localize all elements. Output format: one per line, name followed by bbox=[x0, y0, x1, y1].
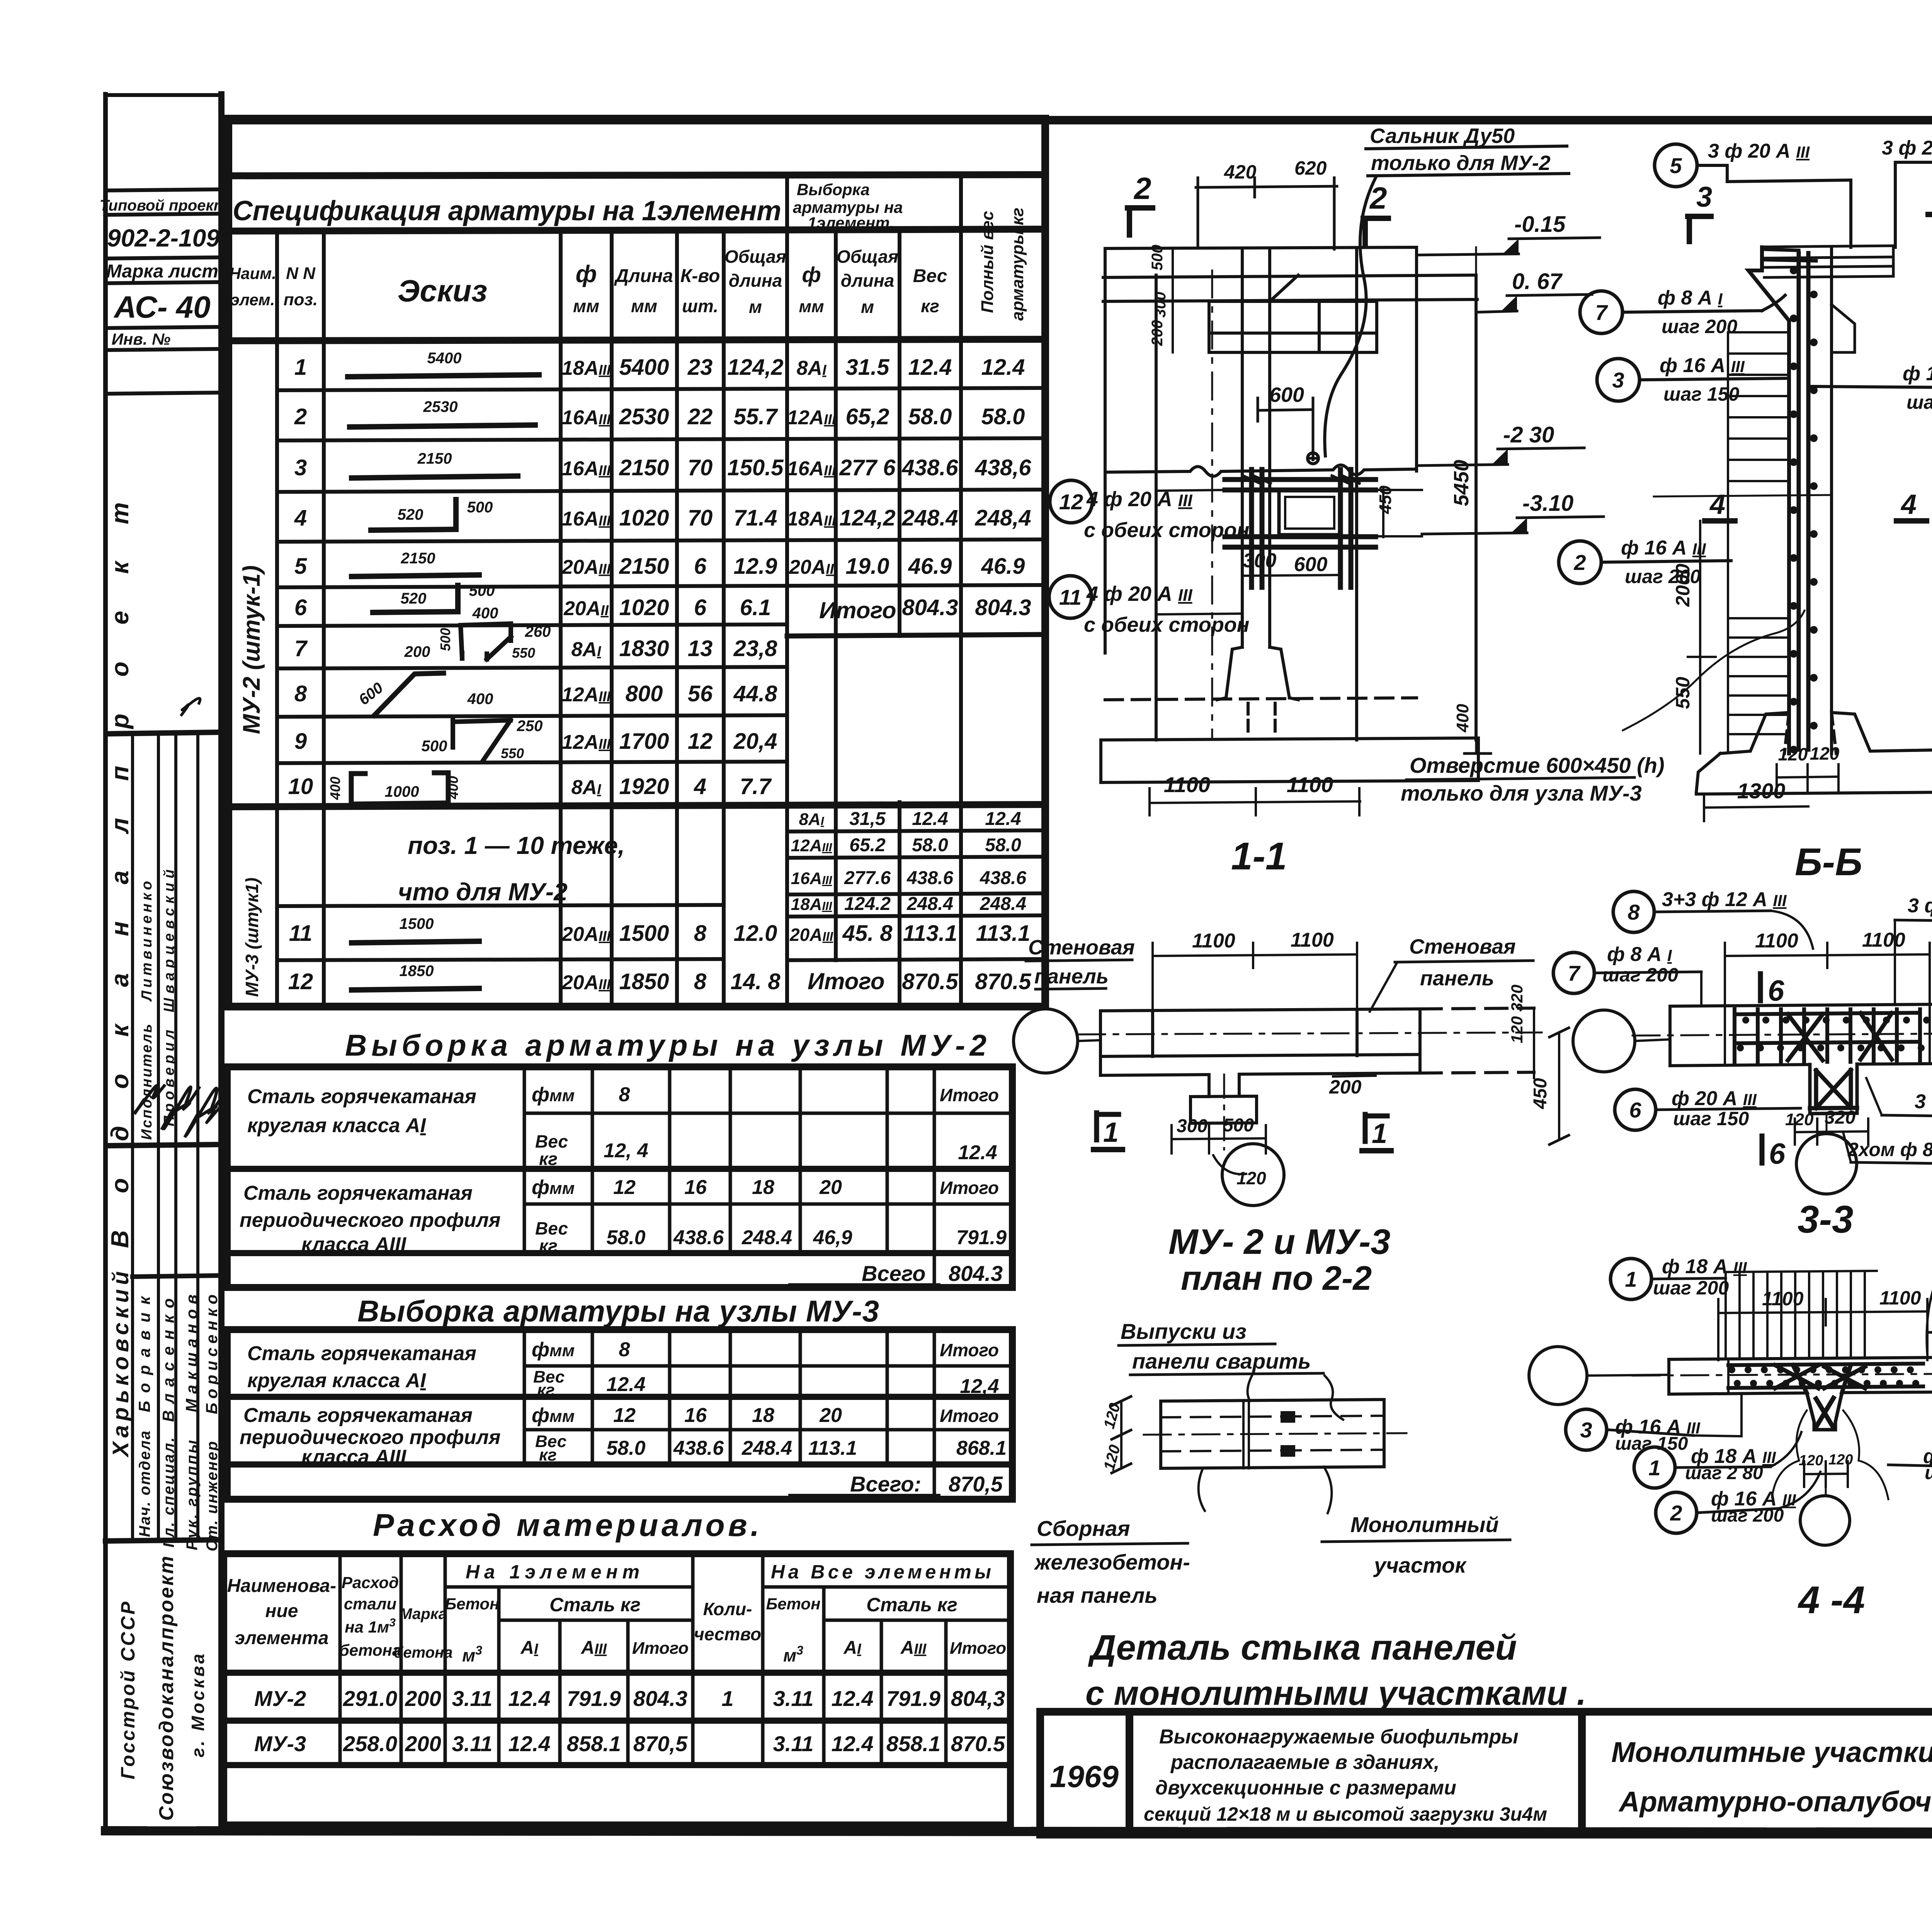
svg-text:поз. 1 — 10 теже,: поз. 1 — 10 теже, bbox=[408, 832, 625, 859]
svg-text:113.1: 113.1 bbox=[976, 921, 1031, 946]
svg-text:3 ф 20 А III: 3 ф 20 А III bbox=[1915, 1090, 1932, 1113]
svg-text:Харьковский: Харьковский bbox=[108, 1271, 133, 1458]
axis circle bottom bbox=[1796, 1134, 1857, 1194]
svg-text:Монолитные участки МУ-2. МУ: Монолитные участки МУ-2. МУ-3. bbox=[1611, 1736, 1932, 1768]
svg-text:2: 2 bbox=[1573, 550, 1586, 575]
svg-text:Типовой проект: Типовой проект bbox=[100, 197, 228, 214]
svg-text:7: 7 bbox=[1595, 300, 1608, 325]
svg-text:элем.: элем. bbox=[231, 291, 275, 309]
svg-text:Сталь кг: Сталь кг bbox=[549, 1594, 641, 1616]
note salnik bbox=[1325, 124, 1569, 456]
svg-text:круглая класса АI: круглая класса АI bbox=[247, 1114, 426, 1137]
svg-text:Арматурно-опалубочный чертеж.: Арматурно-опалубочный чертеж. bbox=[1618, 1786, 1932, 1818]
svg-text:200: 200 bbox=[405, 1731, 441, 1756]
svg-text:1: 1 bbox=[1625, 1267, 1637, 1291]
svg-text:Бетон: Бетон bbox=[766, 1595, 821, 1613]
svg-text:277.6: 277.6 bbox=[844, 868, 891, 888]
svg-text:12: 12 bbox=[288, 969, 313, 994]
svg-text:7.7: 7.7 bbox=[740, 774, 772, 799]
svg-text:Итого: Итого bbox=[940, 1178, 999, 1198]
svg-text:2150: 2150 bbox=[619, 554, 669, 579]
svg-text:400: 400 bbox=[445, 776, 461, 799]
svg-text:Сталь горячекатаная: Сталь горячекатаная bbox=[243, 1182, 473, 1204]
svg-text:150.5: 150.5 bbox=[727, 455, 784, 480]
svg-text:500: 500 bbox=[1223, 1115, 1254, 1136]
svg-text:Ст. инженер: Ст. инженер bbox=[204, 1441, 221, 1551]
svg-text:-0.15: -0.15 bbox=[1514, 212, 1566, 237]
svg-text:12: 12 bbox=[613, 1176, 636, 1199]
svg-text:железобетон-: железобетон- bbox=[1034, 1550, 1190, 1574]
axis circle left bbox=[1573, 1010, 1635, 1072]
svg-text:250: 250 bbox=[517, 718, 543, 735]
svg-text:Выборка арматуры на узлы МУ-3: Выборка арматуры на узлы МУ-3 bbox=[357, 1294, 879, 1328]
svg-text:Исполнитель: Исполнитель bbox=[139, 1024, 155, 1140]
callout 8 bbox=[1927, 1231, 1932, 1355]
svg-text:58.0: 58.0 bbox=[606, 1437, 645, 1459]
svg-text:16: 16 bbox=[684, 1176, 707, 1199]
svg-text:55.7: 55.7 bbox=[734, 404, 779, 429]
svg-text:10: 10 bbox=[288, 774, 313, 799]
dims 200 450 120 320 bbox=[1329, 985, 1569, 1145]
svg-text:круглая класса АI: круглая класса АI bbox=[247, 1369, 426, 1392]
svg-text:шаг 200: шаг 200 bbox=[1662, 316, 1737, 337]
svg-text:248,4: 248,4 bbox=[975, 505, 1031, 531]
svg-text:23: 23 bbox=[687, 355, 713, 380]
svg-text:200: 200 bbox=[1149, 320, 1166, 346]
callout 1 bottom bbox=[1634, 1432, 1801, 1488]
callout 8 bbox=[1613, 888, 1813, 949]
svg-text:2530: 2530 bbox=[423, 398, 458, 415]
svg-text:870,5: 870,5 bbox=[633, 1731, 688, 1756]
svg-text:8АI: 8АI bbox=[797, 357, 827, 379]
wavy leaders bbox=[1772, 1410, 1807, 1497]
svg-text:2: 2 bbox=[1133, 171, 1151, 206]
svg-text:113.1: 113.1 bbox=[903, 921, 957, 946]
svg-text:124,2: 124,2 bbox=[727, 355, 783, 380]
svg-text:120: 120 bbox=[1778, 744, 1808, 764]
svg-text:Общая: Общая bbox=[837, 247, 898, 267]
rebar fan verticals bbox=[1726, 1271, 1877, 1358]
svg-text:Длина: Длина bbox=[614, 266, 673, 286]
svg-text:500: 500 bbox=[467, 499, 493, 516]
svg-text:только для МУ-2: только для МУ-2 bbox=[1371, 151, 1551, 175]
svg-text:3.11: 3.11 bbox=[773, 1686, 814, 1711]
svg-text:Сталь горячекатаная: Сталь горячекатаная bbox=[247, 1342, 476, 1365]
SPEC-TABLE-ROWS bbox=[288, 355, 1032, 994]
svg-text:2: 2 bbox=[1670, 1501, 1682, 1525]
svg-text:791.9: 791.9 bbox=[956, 1226, 1007, 1249]
svg-text:мм: мм bbox=[631, 296, 657, 316]
beam band bbox=[1633, 1004, 1932, 1066]
svg-text:3+3 ф 12 А III: 3+3 ф 12 А III bbox=[1662, 888, 1787, 911]
svg-text:71.4: 71.4 bbox=[734, 505, 777, 531]
svg-text:с монолитными участками .: с монолитными участками . bbox=[1085, 1674, 1586, 1712]
svg-text:4: 4 bbox=[1709, 489, 1725, 520]
section mark 3 right bbox=[1928, 179, 1932, 240]
svg-text:450: 450 bbox=[1376, 485, 1395, 514]
svg-text:что для МУ-2: что для МУ-2 bbox=[398, 878, 568, 906]
svg-text:31.5: 31.5 bbox=[846, 355, 890, 380]
svg-text:7: 7 bbox=[1568, 961, 1581, 985]
svg-text:Расход: Расход bbox=[342, 1573, 399, 1592]
svg-text:МУ-2 (штук-1): МУ-2 (штук-1) bbox=[238, 565, 265, 734]
svg-text:804.3: 804.3 bbox=[949, 1261, 1003, 1286]
LEFT-STRIP-TEXT bbox=[100, 197, 229, 1821]
callout circle 11 bbox=[1049, 576, 1092, 618]
svg-text:12: 12 bbox=[1059, 490, 1083, 514]
svg-text:12.4: 12.4 bbox=[832, 1686, 874, 1711]
svg-text:58.0: 58.0 bbox=[908, 404, 952, 429]
svg-text:200: 200 bbox=[1329, 1076, 1362, 1098]
svg-text:Гл. специал.: Гл. специал. bbox=[160, 1437, 177, 1548]
svg-text:124.2: 124.2 bbox=[844, 894, 891, 914]
svg-text:Шварцевский: Шварцевский bbox=[161, 869, 177, 1012]
dim 1100 1100 bbox=[1153, 929, 1357, 1012]
callout 5 top bbox=[1895, 895, 1932, 1005]
svg-text:870.5: 870.5 bbox=[902, 969, 958, 994]
svg-text:23,8: 23,8 bbox=[733, 636, 778, 661]
svg-text:400: 400 bbox=[327, 777, 343, 800]
svg-text:804,3: 804,3 bbox=[951, 1686, 1005, 1711]
svg-text:300: 300 bbox=[1177, 1116, 1207, 1136]
svg-text:2хом ф 8 А 2: 2хом ф 8 А 2 bbox=[1847, 1139, 1932, 1160]
svg-text:438.6: 438.6 bbox=[906, 868, 953, 888]
svg-text:ная панель: ная панель bbox=[1037, 1583, 1158, 1607]
svg-text:65,2: 65,2 bbox=[846, 404, 889, 429]
svg-text:элемента: элемента bbox=[235, 1628, 329, 1648]
svg-text:1920: 1920 bbox=[619, 774, 669, 799]
svg-text:248.4: 248.4 bbox=[901, 505, 958, 531]
stem trapezoid bbox=[1807, 1393, 1842, 1430]
svg-text:438.6: 438.6 bbox=[673, 1437, 724, 1459]
svg-text:291.0: 291.0 bbox=[343, 1686, 397, 1711]
dims 1100 1100 bbox=[1718, 1287, 1927, 1360]
B-B top slab bbox=[1764, 246, 1893, 277]
svg-text:22: 22 bbox=[687, 404, 713, 429]
callout 5 bottom bbox=[1866, 1078, 1932, 1137]
svg-text:кг: кг bbox=[539, 1236, 558, 1256]
svg-text:5400: 5400 bbox=[619, 355, 669, 380]
svg-text:Итого: Итого bbox=[940, 1085, 999, 1105]
svg-text:12.9: 12.9 bbox=[734, 554, 777, 579]
svg-text:124,2: 124,2 bbox=[839, 505, 895, 531]
axis circle left bbox=[1014, 1009, 1078, 1073]
panel band bbox=[1144, 1400, 1406, 1468]
svg-text:мм: мм bbox=[799, 297, 824, 316]
svg-text:550: 550 bbox=[1672, 677, 1694, 709]
dims 300 500 120 below bbox=[1172, 1115, 1266, 1153]
svg-text:46.9: 46.9 bbox=[981, 554, 1025, 579]
svg-text:120 320: 120 320 bbox=[1508, 985, 1526, 1043]
svg-text:791.9: 791.9 bbox=[886, 1686, 940, 1711]
svg-text:Высоконагружаемые биофильтры: Высоконагружаемые биофильтры bbox=[1159, 1726, 1519, 1748]
svg-text:Сборная: Сборная bbox=[1037, 1516, 1130, 1541]
svg-text:шаг 200: шаг 200 bbox=[1602, 964, 1678, 986]
svg-text:120: 120 bbox=[1810, 743, 1840, 764]
svg-text:Наим.: Наим. bbox=[229, 264, 276, 282]
svg-text:438.6: 438.6 bbox=[901, 455, 958, 480]
SPEC-TABLE bbox=[228, 119, 1045, 1007]
beam rebar rows with dots bbox=[1728, 1364, 1923, 1388]
svg-text:1850: 1850 bbox=[400, 963, 434, 980]
svg-text:N N: N N bbox=[286, 264, 316, 283]
svg-text:600: 600 bbox=[1269, 383, 1304, 406]
svg-text:902-2-109: 902-2-109 bbox=[107, 224, 220, 252]
svg-text:3: 3 bbox=[294, 455, 307, 480]
svg-text:фмм: фмм bbox=[532, 1176, 575, 1199]
section mark 2 right bbox=[1363, 181, 1388, 245]
svg-text:3-3: 3-3 bbox=[1798, 1198, 1854, 1241]
svg-text:Сталь горячекатаная: Сталь горячекатаная bbox=[247, 1085, 476, 1108]
svg-text:65.2: 65.2 bbox=[849, 835, 886, 855]
svg-text:16: 16 bbox=[684, 1404, 707, 1427]
svg-text:1100: 1100 bbox=[1862, 929, 1905, 951]
B-B footing bbox=[1696, 713, 1932, 794]
svg-text:20: 20 bbox=[819, 1404, 842, 1427]
svg-text:248.4: 248.4 bbox=[742, 1437, 792, 1459]
dims 120 320 bbox=[1785, 1107, 1868, 1145]
svg-text:620: 620 bbox=[1294, 157, 1327, 179]
svg-text:11: 11 bbox=[289, 921, 312, 946]
svg-text:шаг 150: шаг 150 bbox=[1673, 1108, 1749, 1129]
svg-text:12.4: 12.4 bbox=[912, 809, 948, 829]
section mark 6 bottom bbox=[1762, 1136, 1786, 1170]
svg-text:ф 20 А III: ф 20 А III bbox=[1672, 1087, 1757, 1110]
svg-text:с обеих сторон: с обеих сторон bbox=[1084, 613, 1249, 636]
svg-text:Всего:: Всего: bbox=[850, 1472, 921, 1496]
callout 2 top right bbox=[1927, 1300, 1932, 1354]
svg-text:ф 16 А III: ф 16 А III bbox=[1621, 537, 1706, 559]
svg-text:248.4: 248.4 bbox=[742, 1226, 792, 1249]
svg-text:1000: 1000 bbox=[385, 783, 419, 800]
svg-text:58.0: 58.0 bbox=[912, 835, 948, 855]
svg-text:4 -4: 4 -4 bbox=[1798, 1578, 1865, 1622]
svg-text:Стеновая: Стеновая bbox=[1028, 936, 1135, 959]
section mark 1 right bbox=[1362, 1114, 1391, 1151]
svg-text:ф: ф bbox=[802, 262, 821, 287]
svg-text:500: 500 bbox=[437, 628, 453, 651]
svg-text:шаг 200: шаг 200 bbox=[1653, 1277, 1729, 1299]
svg-text:Итого: Итого bbox=[819, 597, 896, 623]
svg-text:6: 6 bbox=[694, 595, 707, 620]
svg-text:ние: ние bbox=[265, 1601, 298, 1621]
svg-text:8: 8 bbox=[294, 681, 307, 706]
svg-text:4: 4 bbox=[694, 774, 706, 799]
callout 3 bbox=[1597, 354, 1789, 405]
DETAIL-JOINT bbox=[1032, 1319, 1586, 1712]
svg-text:шаг 200: шаг 200 bbox=[1906, 391, 1932, 413]
svg-text:1100: 1100 bbox=[1879, 1287, 1921, 1309]
svg-text:120: 120 bbox=[1799, 1452, 1823, 1469]
svg-text:113.1: 113.1 bbox=[808, 1437, 857, 1459]
callout 3 left bbox=[1566, 1395, 1742, 1454]
svg-text:фмм: фмм bbox=[532, 1083, 575, 1106]
svg-text:2150: 2150 bbox=[401, 550, 435, 567]
svg-text:8: 8 bbox=[619, 1338, 630, 1361]
svg-text:Водоканалпроект: Водоканалпроект bbox=[106, 502, 134, 1248]
svg-text:6: 6 bbox=[694, 554, 707, 579]
svg-text:8: 8 bbox=[1628, 900, 1640, 924]
svg-text:8АI: 8АI bbox=[571, 776, 601, 799]
svg-text:3.11: 3.11 bbox=[773, 1731, 814, 1756]
svg-text:804.3: 804.3 bbox=[975, 595, 1031, 620]
svg-text:2000: 2000 bbox=[1672, 564, 1694, 607]
svg-text:3.11: 3.11 bbox=[452, 1731, 493, 1756]
svg-text:только для узла МУ-3: только для узла МУ-3 bbox=[1401, 781, 1642, 805]
svg-text:400: 400 bbox=[472, 605, 498, 622]
svg-text:11: 11 bbox=[1059, 585, 1082, 609]
svg-text:Расход материалов.: Расход материалов. bbox=[373, 1508, 759, 1543]
section mark 3 left bbox=[1688, 181, 1712, 241]
svg-text:Рук. группы: Рук. группы bbox=[184, 1440, 201, 1550]
rebar grid bbox=[1225, 469, 1376, 587]
svg-text:46.9: 46.9 bbox=[908, 554, 952, 579]
dim 420/620 bbox=[1196, 157, 1337, 249]
svg-text:Сталь горячекатаная: Сталь горячекатаная bbox=[243, 1404, 473, 1427]
svg-text:Полный вес: Полный вес bbox=[978, 211, 997, 313]
svg-text:На Все элементы: На Все элементы bbox=[771, 1561, 991, 1583]
callout 1 top bbox=[1611, 1255, 1747, 1299]
TITLE-BLOCK bbox=[1040, 146, 1932, 1871]
svg-text:438,6: 438,6 bbox=[975, 455, 1031, 480]
svg-text:858.1: 858.1 bbox=[567, 1731, 621, 1756]
svg-text:45. 8: 45. 8 bbox=[842, 921, 893, 946]
svg-text:6.1: 6.1 bbox=[740, 595, 771, 620]
dims 1100 1100 bbox=[1725, 929, 1930, 1005]
signature squiggles bbox=[182, 698, 200, 715]
ESKIZ-SKETCHES bbox=[327, 350, 551, 990]
svg-text:70: 70 bbox=[688, 455, 713, 480]
callout circle 12 bbox=[1050, 480, 1092, 523]
svg-text:план по 2-2: план по 2-2 bbox=[1181, 1259, 1372, 1297]
svg-text:фмм: фмм bbox=[532, 1404, 575, 1427]
section mark 4 left bbox=[1705, 489, 1735, 521]
wall band plan bbox=[1078, 1008, 1542, 1150]
callout 5 left bbox=[1655, 140, 1851, 247]
svg-text:46,9: 46,9 bbox=[813, 1226, 852, 1249]
column footing bbox=[1101, 647, 1478, 782]
elevation marks bbox=[1417, 212, 1604, 753]
X braces bbox=[1775, 1365, 1865, 1393]
svg-text:438.6: 438.6 bbox=[673, 1226, 724, 1249]
svg-text:с обеих сторон: с обеих сторон bbox=[1084, 519, 1249, 542]
svg-text:1500: 1500 bbox=[400, 915, 434, 932]
callout 4 right bbox=[1888, 1445, 1932, 1488]
svg-text:1элемент.: 1элемент. bbox=[808, 214, 894, 232]
svg-text:12.4: 12.4 bbox=[832, 1731, 874, 1756]
svg-text:12.4: 12.4 bbox=[958, 1141, 997, 1164]
svg-text:14. 8: 14. 8 bbox=[731, 969, 781, 994]
structure walls bbox=[1103, 247, 1477, 740]
svg-text:12,4: 12,4 bbox=[960, 1375, 999, 1398]
svg-text:кг: кг bbox=[537, 1381, 555, 1400]
svg-text:бетона: бетона bbox=[394, 1644, 453, 1661]
svg-text:120: 120 bbox=[1828, 1452, 1853, 1468]
svg-text:К-во: К-во bbox=[680, 266, 720, 286]
svg-text:520: 520 bbox=[398, 506, 423, 523]
svg-text:Госстрой СССР: Госстрой СССР bbox=[117, 1601, 139, 1779]
svg-text:2150: 2150 bbox=[619, 455, 669, 480]
SECTION-4-4 bbox=[1529, 1231, 1932, 1622]
svg-text:1969: 1969 bbox=[1050, 1759, 1119, 1794]
callout 6 bbox=[1615, 1087, 1801, 1130]
svg-text:шаг 150: шаг 150 bbox=[1663, 383, 1739, 405]
svg-text:Стеновая: Стеновая bbox=[1409, 935, 1516, 958]
svg-text:3 ф 20 А III: 3 ф 20 А III bbox=[1882, 137, 1932, 159]
svg-text:ф 18 А III: ф 18 А III bbox=[1903, 362, 1932, 385]
svg-text:МУ-3: МУ-3 bbox=[254, 1731, 306, 1756]
svg-text:438.6: 438.6 bbox=[980, 868, 1026, 888]
svg-text:длина: длина bbox=[841, 270, 895, 291]
svg-text:2: 2 bbox=[294, 404, 307, 429]
svg-text:3 ф 20 А III: 3 ф 20 А III bbox=[1908, 895, 1932, 917]
axis circle left bbox=[1529, 1347, 1587, 1405]
svg-text:шт.: шт. bbox=[682, 296, 718, 316]
svg-text:520: 520 bbox=[401, 590, 427, 607]
svg-text:панель: панель bbox=[1034, 965, 1109, 988]
B-B column bbox=[1748, 247, 1855, 753]
svg-text:класса АIII: класса АIII bbox=[301, 1446, 407, 1468]
svg-text:бетона: бетона bbox=[339, 1641, 401, 1659]
svg-text:Инв. №: Инв. № bbox=[112, 330, 170, 348]
section mark 2 left bbox=[1128, 171, 1153, 235]
svg-text:1020: 1020 bbox=[619, 595, 669, 620]
svg-text:320: 320 bbox=[1825, 1107, 1855, 1128]
svg-text:2530: 2530 bbox=[619, 404, 669, 429]
svg-text:6: 6 bbox=[1768, 975, 1784, 1007]
svg-text:5: 5 bbox=[1670, 153, 1682, 178]
svg-text:Литвиненко: Литвиненко bbox=[139, 881, 155, 1002]
svg-text:Итого: Итого bbox=[808, 968, 885, 994]
svg-text:Отверстие 600×450 (h): Отверстие 600×450 (h) bbox=[1410, 753, 1665, 777]
svg-text:550: 550 bbox=[501, 745, 524, 761]
frame bottom bbox=[105, 1831, 1932, 1833]
svg-text:870.5: 870.5 bbox=[975, 969, 1031, 994]
svg-text:Марка: Марка bbox=[399, 1605, 447, 1622]
svg-text:600: 600 bbox=[1294, 553, 1328, 576]
svg-text:20: 20 bbox=[819, 1176, 842, 1199]
svg-text:шаг 150: шаг 150 bbox=[1615, 1434, 1688, 1454]
svg-text:1100: 1100 bbox=[1287, 772, 1333, 797]
svg-text:ф 8 А I: ф 8 А I bbox=[1607, 943, 1672, 966]
svg-text:4: 4 bbox=[1900, 489, 1917, 520]
svg-text:1100: 1100 bbox=[1755, 930, 1798, 952]
svg-text:1700: 1700 bbox=[619, 729, 669, 754]
svg-text:200: 200 bbox=[404, 643, 430, 660]
svg-text:МУ-2: МУ-2 bbox=[254, 1686, 306, 1711]
callout 7 bbox=[1580, 287, 1785, 337]
svg-text:ф 16 А III: ф 16 А III bbox=[1660, 354, 1745, 377]
svg-text:31,5: 31,5 bbox=[849, 809, 886, 829]
svg-text:44.8: 44.8 bbox=[733, 681, 778, 706]
svg-text:500: 500 bbox=[469, 582, 495, 599]
svg-text:3.11: 3.11 bbox=[452, 1686, 493, 1711]
svg-text:300: 300 bbox=[1152, 292, 1169, 318]
svg-text:800: 800 bbox=[626, 681, 663, 706]
svg-text:258.0: 258.0 bbox=[343, 1731, 397, 1756]
svg-text:9: 9 bbox=[294, 729, 307, 754]
RASHOD-TABLE bbox=[224, 1508, 1010, 1825]
svg-text:12.4: 12.4 bbox=[606, 1373, 645, 1396]
svg-text:2150: 2150 bbox=[417, 450, 452, 467]
svg-text:3 ф 20 А III: 3 ф 20 А III bbox=[1708, 140, 1810, 162]
svg-text:-3.10: -3.10 bbox=[1522, 491, 1573, 516]
svg-text:Коли-: Коли- bbox=[703, 1599, 752, 1619]
svg-text:Борисенко: Борисенко bbox=[202, 1294, 221, 1414]
svg-text:3: 3 bbox=[1696, 181, 1712, 213]
svg-text:-2 30: -2 30 bbox=[1503, 422, 1554, 447]
stem bbox=[1810, 1064, 1857, 1114]
